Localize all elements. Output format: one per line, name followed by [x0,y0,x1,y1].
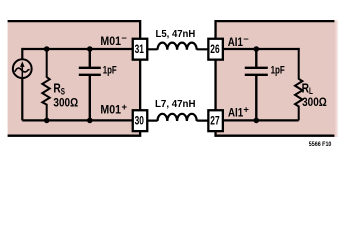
svg-text:–: – [122,33,127,44]
svg-text:M01: M01 [100,34,121,48]
svg-text:26: 26 [210,42,219,56]
junction dot cap-right bottom [253,118,259,124]
source arrow [21,64,23,78]
resistor RL [295,49,302,120]
pin 27 box [208,110,223,131]
svg-text:+: + [122,102,128,113]
left source box fill [8,20,141,137]
svg-text:+: + [243,104,249,115]
svg-text:R: R [302,81,309,95]
source V1 circle [13,59,32,78]
junction dot cap-left bottom [87,118,93,124]
svg-text:1pF: 1pF [271,65,285,77]
right load box border [216,21,335,136]
junction dot cap-right top [253,46,259,52]
svg-text:1pF: 1pF [103,65,117,77]
svg-text:31: 31 [135,42,144,56]
wire: left box bottom rail [22,119,140,121]
pin 31 box [133,39,148,60]
wire: pin30 to L7 [140,119,158,121]
svg-text:AI1: AI1 [228,105,243,119]
pin 30 box [133,110,148,131]
junction dot cap-left top [87,46,93,52]
svg-text:R: R [53,82,60,96]
svg-text:–: – [243,33,248,44]
svg-text:27: 27 [210,114,219,128]
pin 26 box [208,39,223,60]
svg-text:300Ω: 300Ω [53,96,78,110]
svg-text:300Ω: 300Ω [302,95,327,109]
wire: source top stub [21,49,23,120]
capacitor C-left 1pF [79,49,101,120]
wire: left box top rail [22,48,140,50]
source sine [15,68,30,72]
wire: right box top rail [216,48,299,50]
wire: right box bottom rail [216,119,299,121]
left source box border [8,21,141,136]
svg-text:30: 30 [135,114,144,128]
wire: L5 to pin26 [197,48,215,50]
wire: L7 to pin27 [197,119,215,121]
svg-text:M01: M01 [100,102,121,116]
resistor RS [42,49,49,120]
svg-text:L7, 47nH: L7, 47nH [155,99,196,110]
wire: pin31 to L5 [140,48,158,50]
capacitor C-right 1pF [245,49,268,120]
svg-text:5566 F10: 5566 F10 [309,141,332,148]
svg-text:AI1: AI1 [228,35,243,49]
junction dot RS top [44,46,50,52]
inductor L5 [158,43,197,50]
wire: top rail corner into RL [298,48,300,50]
svg-text:L5, 47nH: L5, 47nH [156,29,196,40]
junction dot RS bottom [44,118,50,124]
inductor L7 [158,114,197,121]
